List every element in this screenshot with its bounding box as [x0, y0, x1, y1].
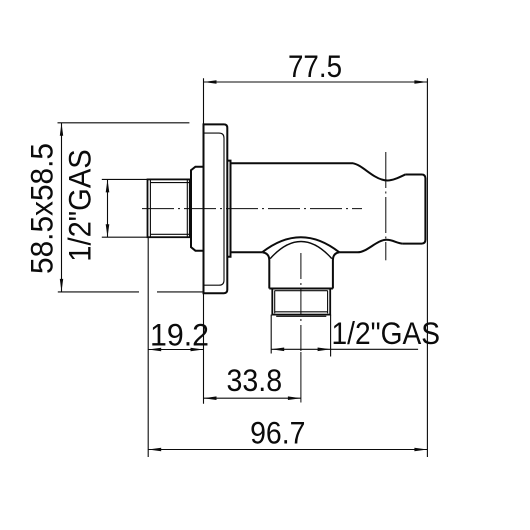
33.8 arrows [204, 396, 217, 400]
19.2 arrows [148, 348, 161, 351]
arrowheads [60, 80, 428, 451]
bottom thread detail lines [275, 291, 328, 317]
96.7 arrows [148, 448, 161, 451]
svg-text:58.5x58.5: 58.5x58.5 [23, 143, 59, 274]
body top edge + neck + cap [231, 163, 406, 180]
flange inner rounded face [204, 133, 225, 285]
svg-text:77.5: 77.5 [288, 48, 342, 84]
svg-text:19.2: 19.2 [150, 316, 209, 352]
58.5 arrows [60, 123, 63, 136]
body bottom edge (left of branch) [231, 251, 263, 253]
bell outer arc [262, 237, 339, 252]
left thread detail lines [150, 179, 189, 237]
dim 1/2GAS left [102, 179, 148, 237]
cone vertical centerline [385, 152, 387, 260]
dim 19.2 [148, 237, 203, 457]
svg-text:33.8: 33.8 [227, 362, 283, 398]
boss between thread and flange [191, 167, 204, 251]
1/2GAS left arrows [106, 179, 110, 192]
dim 77.5 [204, 78, 428, 457]
bottom neck curve [339, 240, 403, 253]
thin object lines [150, 133, 331, 316]
centerlines [142, 152, 386, 403]
horizontal axis centerline [142, 208, 362, 210]
svg-text:1/2"GAS: 1/2"GAS [62, 149, 98, 262]
wall flange plate 58.5x58.5 [204, 124, 228, 293]
dim 1/2GAS bottom [271, 315, 418, 357]
svg-text:96.7: 96.7 [250, 414, 305, 450]
dim 58.5x58.5 [58, 123, 204, 292]
bell left fillet + hub left side [262, 252, 269, 288]
dim 33.8 [204, 397, 301, 399]
hub shoulder [269, 288, 333, 290]
outlet vertical centerline [300, 253, 302, 352]
left male thread 1/2"GAS [148, 179, 190, 237]
collar behind flange [227, 161, 230, 257]
dim 96.7 [148, 449, 427, 451]
svg-text:1/2"GAS: 1/2"GAS [332, 315, 441, 351]
end cap [403, 175, 426, 244]
1/2GAS bottom arrows [271, 348, 284, 352]
77.5 arrows [204, 80, 217, 83]
bell right fillet + hub right side [333, 252, 339, 288]
bell inner arc [270, 242, 332, 259]
bottom male thread 1/2"GAS [272, 289, 330, 315]
